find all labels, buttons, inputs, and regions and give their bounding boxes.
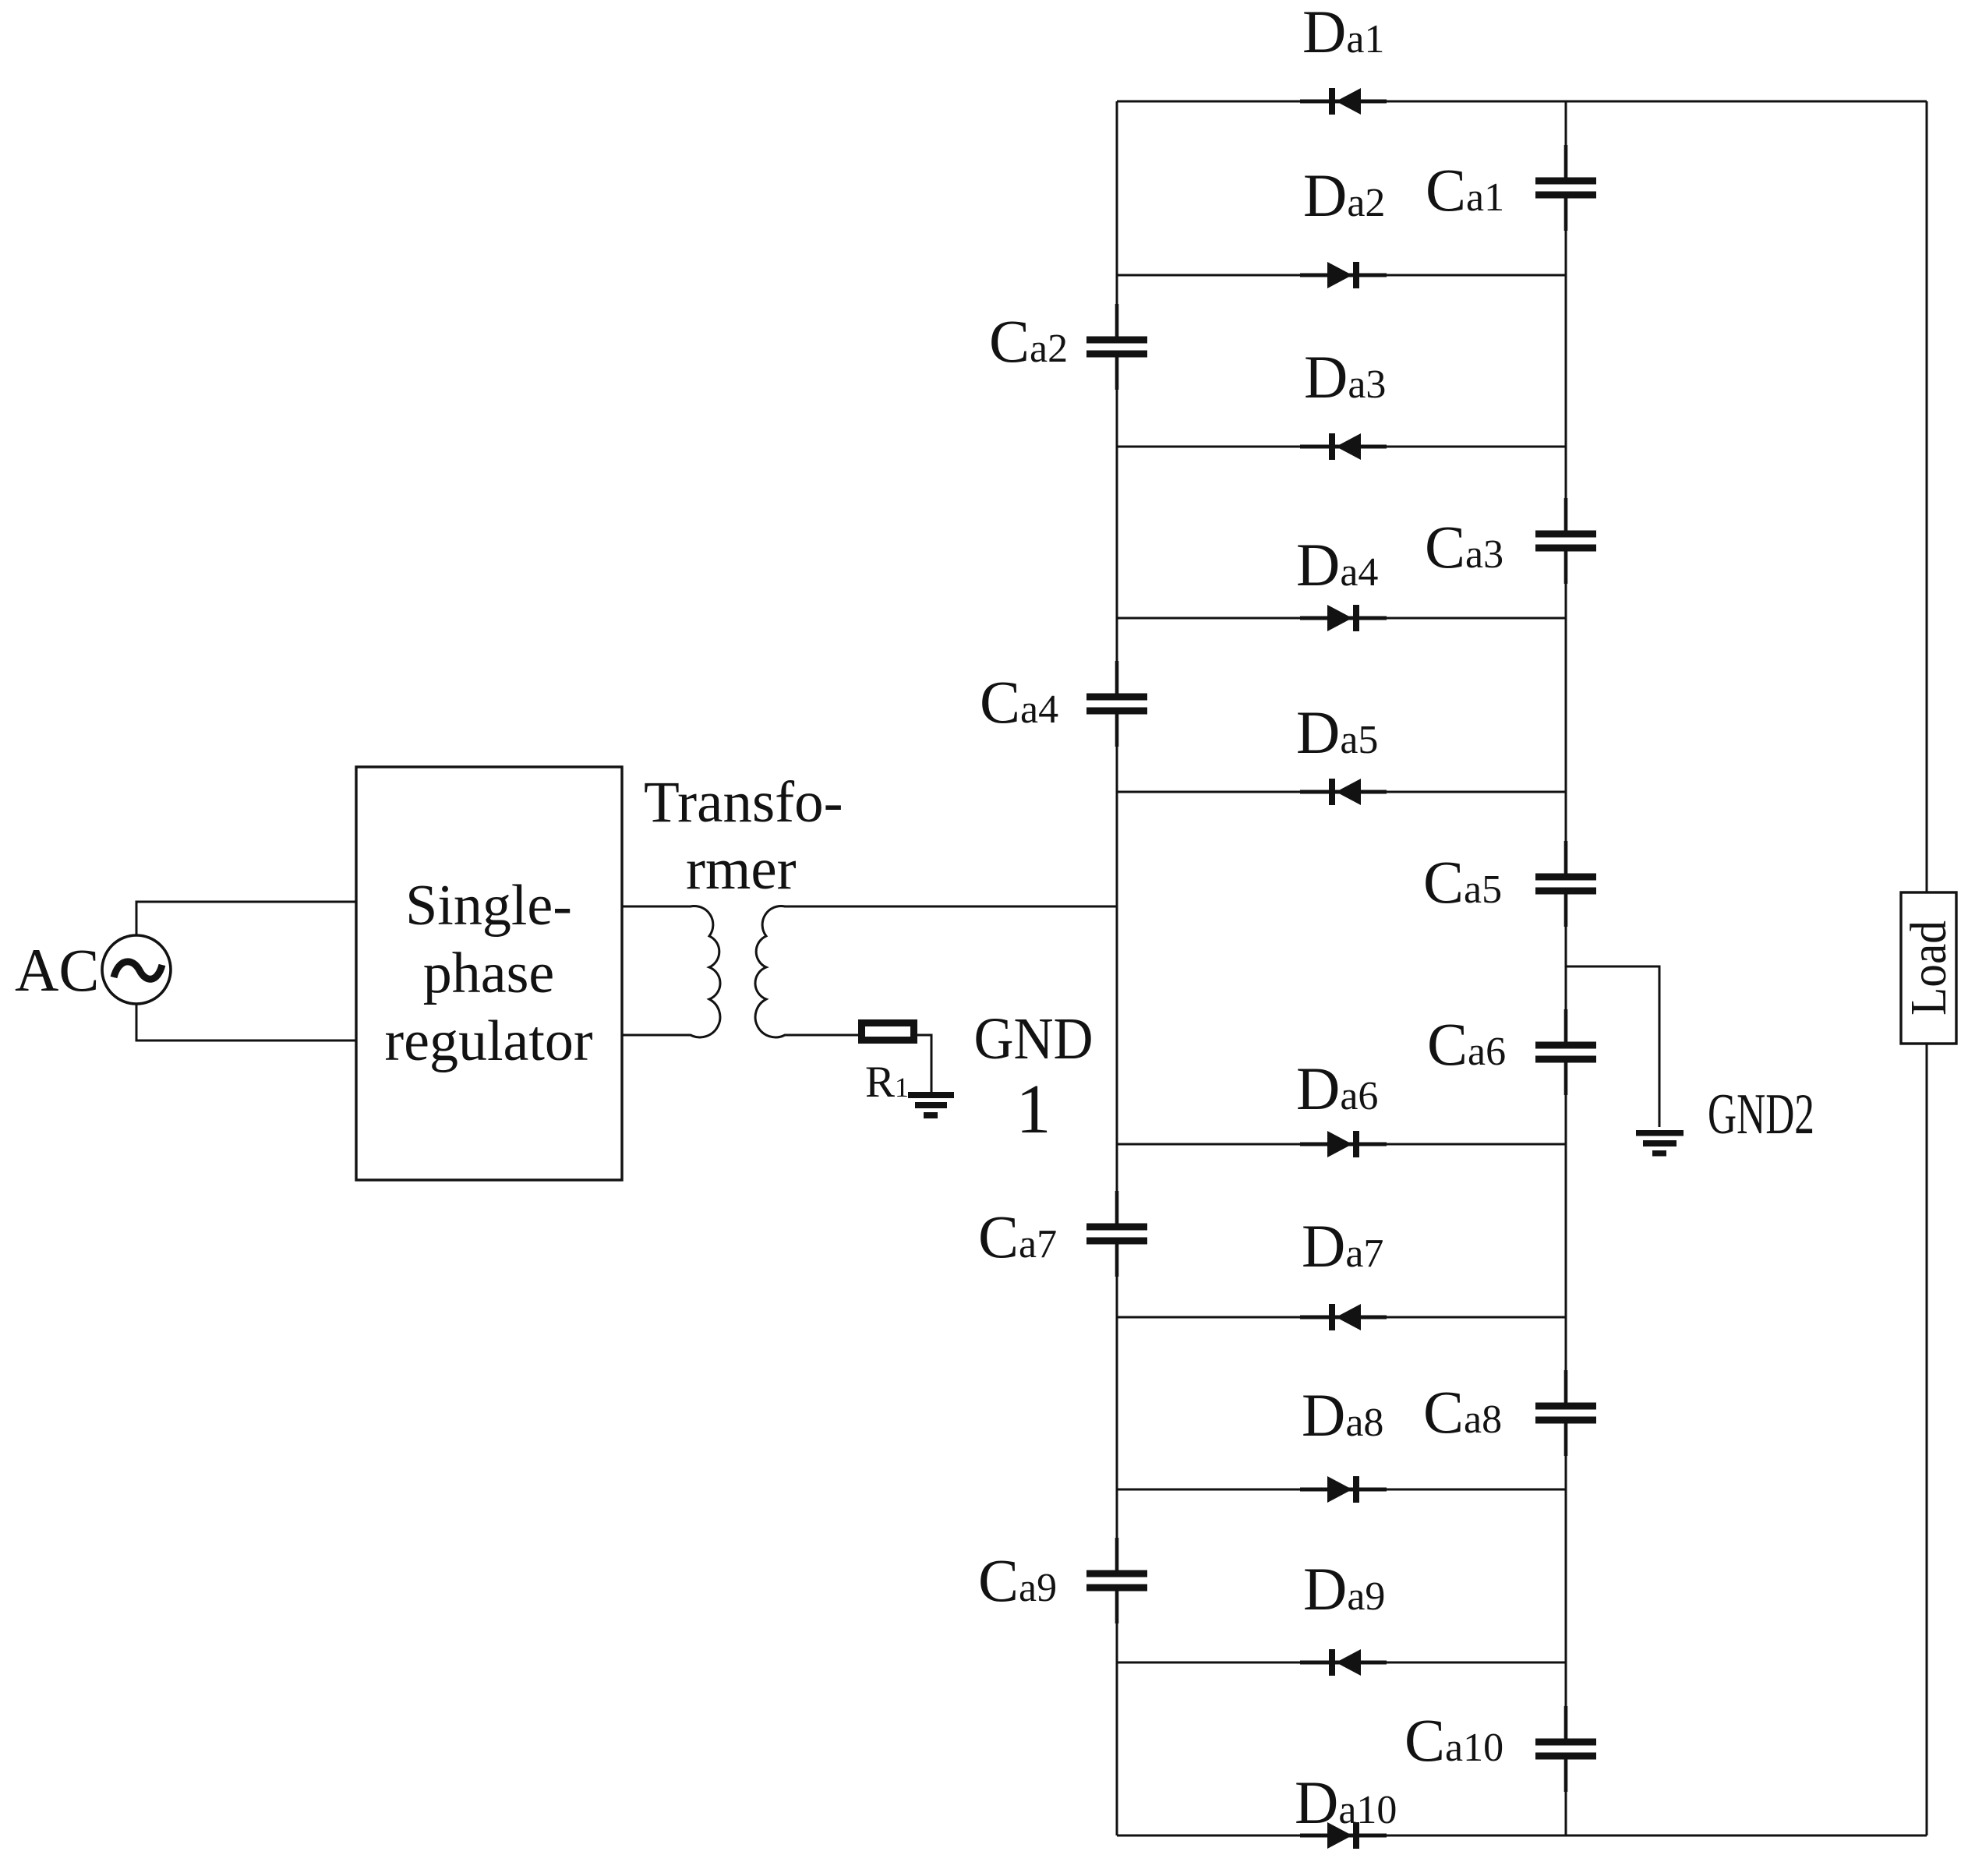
capacitor Ca9 <box>1086 1538 1147 1623</box>
wire left rail seg1 (top row to Ca2) <box>1116 101 1118 340</box>
ground GND1 symbol <box>908 1092 954 1118</box>
capacitor Ca1 <box>1535 145 1596 231</box>
wire middle rail seg3 (Ca3 to Ca5) <box>1565 548 1567 877</box>
label Transformer <box>644 770 843 902</box>
diode Da1 <box>1300 88 1387 115</box>
capacitor Ca8 <box>1535 1370 1596 1456</box>
wire middle rail to GND2 <box>1566 966 1659 1127</box>
svg-text:Transfo-: Transfo- <box>644 770 843 835</box>
wire row 8 (left rail to middle rail, carries Da8) <box>1117 1489 1566 1491</box>
svg-text:rmer: rmer <box>686 837 797 902</box>
wire row 3 (left rail to middle rail, carries Da3) <box>1117 446 1566 448</box>
wire middle rail seg1 (top row to Ca1) <box>1565 101 1567 181</box>
diode Da7 <box>1300 1304 1387 1330</box>
AC source V1 (sine symbol) <box>102 935 171 1004</box>
single-phase regulator block U1 <box>356 767 622 1180</box>
wire middle rail seg2 (Ca1 to Ca3) <box>1565 195 1567 534</box>
wire right rail lower segment (Load to bottom row) <box>1926 1044 1928 1835</box>
svg-text:Load: Load <box>1900 920 1957 1016</box>
svg-text:Single-: Single- <box>405 874 572 938</box>
diode Da5 <box>1300 779 1387 805</box>
transformer T1 secondary winding <box>755 906 1117 1037</box>
wire top row (node with Da1, left rail to right rail) <box>1117 101 1927 103</box>
capacitor Ca2 <box>1086 304 1147 390</box>
wire AC source bottom to regulator box <box>136 1004 356 1040</box>
capacitor Ca3 <box>1535 498 1596 584</box>
wire row 4 (left rail to middle rail, carries Da4) <box>1117 617 1566 620</box>
wire middle rail seg5 (Ca6 to Ca8) <box>1565 1059 1567 1406</box>
wire row 9 (left rail to middle rail, carries Da9) <box>1117 1662 1566 1664</box>
ground GND2 symbol <box>1636 1130 1684 1157</box>
transformer T1 primary winding <box>622 906 720 1037</box>
svg-text:regulator: regulator <box>384 1009 592 1073</box>
wire R1 to GND1 <box>917 1035 931 1092</box>
svg-text:GND2: GND2 <box>1708 1083 1814 1146</box>
svg-text:AC: AC <box>15 936 99 1004</box>
diode Da9 <box>1300 1649 1387 1676</box>
wire row 7 (left rail to middle rail, carries Da7) <box>1117 1316 1566 1319</box>
capacitor Ca10 <box>1535 1706 1596 1792</box>
label Single-phase regulator <box>384 874 592 1073</box>
wire middle rail seg6 (Ca8 to Ca10) <box>1565 1420 1567 1742</box>
diode Da10 <box>1300 1822 1387 1849</box>
wire middle rail seg7 (Ca10 to bottom row) <box>1565 1756 1567 1835</box>
wire left rail seg2 (Ca2 to Ca4) <box>1116 354 1118 697</box>
diode Da2 <box>1300 262 1387 288</box>
wire left rail seg4 (Ca7 to Ca9) <box>1116 1241 1118 1574</box>
capacitor Ca5 <box>1535 841 1596 927</box>
svg-text:GND: GND <box>974 1006 1094 1072</box>
wire bottom row (carries Da10, left rail to right rail) <box>1117 1835 1927 1837</box>
resistor R1 <box>862 1023 914 1040</box>
svg-text:phase: phase <box>423 942 555 1005</box>
wire row 2 (left rail to middle rail, carries Da2) <box>1117 274 1566 277</box>
capacitor Ca7 <box>1086 1191 1147 1277</box>
wire left rail seg3 (Ca4 to Ca7) <box>1116 711 1118 1227</box>
wire row 6 (left rail to middle rail, carries Da6) <box>1117 1143 1566 1146</box>
label GND 1 <box>974 1006 1094 1148</box>
capacitor Ca4 <box>1086 661 1147 747</box>
wire row 5 (left rail to middle rail, carries Da5) <box>1117 791 1566 793</box>
diode Da6 <box>1300 1131 1387 1157</box>
capacitor Ca6 <box>1535 1009 1596 1095</box>
wire AC source top to regulator box <box>136 902 356 935</box>
load block RL <box>1901 892 1956 1044</box>
svg-text:1: 1 <box>1016 1071 1051 1148</box>
diode Da3 <box>1300 433 1387 460</box>
wire right rail upper segment (top row to Load) <box>1926 101 1928 892</box>
wire middle rail seg4 (Ca5 to Ca6) <box>1565 891 1567 1045</box>
wire left rail seg5 (Ca9 to bottom row) <box>1116 1588 1118 1835</box>
diode Da4 <box>1300 605 1387 631</box>
diode Da8 <box>1300 1476 1387 1503</box>
